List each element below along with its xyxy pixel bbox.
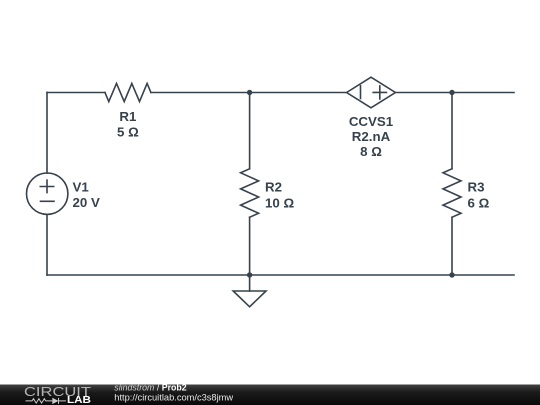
logo diode bar [58, 398, 60, 404]
resistor R1 [105, 83, 151, 101]
svg-text:5 Ω: 5 Ω [117, 124, 139, 139]
svg-text:LAB: LAB [67, 395, 91, 405]
svg-text:R2: R2 [265, 180, 282, 195]
wire left vertical bottom [46, 214, 48, 275]
ground [233, 291, 266, 307]
svg-text:http://circuitlab.com/c3s8jmw: http://circuitlab.com/c3s8jmw [114, 393, 233, 403]
wire node A down to R2 [249, 93, 251, 169]
svg-text:CCVS1: CCVS1 [349, 114, 394, 129]
svg-text:10 Ω: 10 Ω [265, 195, 294, 210]
node A junction dot [247, 90, 252, 95]
wire left vertical top [46, 93, 48, 174]
dependent source CCVS1 diamond [347, 77, 396, 108]
wire R1 to node A [151, 92, 250, 94]
CCVS1 plus sign [373, 86, 386, 99]
svg-text:R2.nA: R2.nA [352, 129, 391, 144]
CCVS1 minus bar [360, 86, 362, 99]
wire top-left horizontal [47, 92, 105, 94]
logo wire with resistor [26, 398, 67, 404]
svg-text:slindstrom / Prob2: slindstrom / Prob2 [114, 383, 186, 393]
bottom node B junction dot [449, 272, 454, 277]
svg-text:R3: R3 [468, 180, 485, 195]
svg-text:V1: V1 [73, 179, 90, 194]
svg-text:20 V: 20 V [73, 195, 100, 210]
resistor R3 [443, 169, 461, 218]
bottom node A junction dot [247, 272, 252, 277]
wire node B down to R3 [451, 93, 453, 169]
V1 plus sign [40, 180, 53, 192]
resistor R2 [241, 169, 259, 218]
wire R3 to bottom [451, 217, 453, 275]
wire R2 to bottom [249, 217, 251, 275]
svg-text:R1: R1 [119, 109, 137, 124]
node B junction dot [449, 90, 454, 95]
wire CCVS1 to node B [395, 92, 452, 94]
wire node A to CCVS1 [250, 92, 347, 94]
V1 minus sign [41, 200, 55, 202]
voltage source V1 circle [27, 173, 68, 214]
wire bottom horizontal [47, 274, 514, 276]
wire ground stub [249, 275, 251, 291]
svg-text:6 Ω: 6 Ω [468, 195, 490, 210]
svg-text:8 Ω: 8 Ω [360, 144, 382, 159]
logo diode triangle [52, 398, 58, 404]
wire node B to right end [452, 92, 514, 94]
